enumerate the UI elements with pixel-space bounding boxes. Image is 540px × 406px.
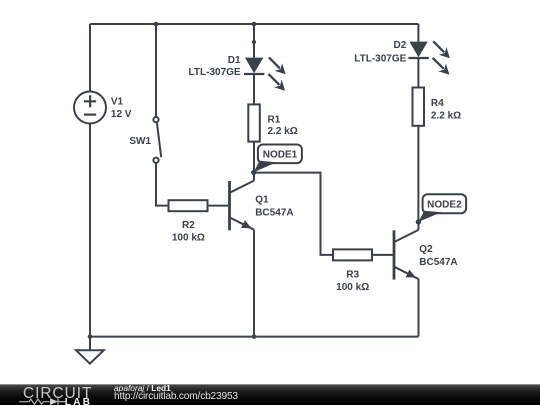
node junction top SW1 xyxy=(154,22,159,27)
CircuitLab logo xyxy=(0,385,110,406)
wire R1 to node xyxy=(253,142,255,181)
node A junction (NODE1) xyxy=(251,170,256,175)
svg-text:100 kΩ: 100 kΩ xyxy=(172,232,205,243)
node junction top D1 xyxy=(252,22,257,27)
svg-text:2.2 kΩ: 2.2 kΩ xyxy=(431,111,461,122)
wire NODE1 to R3 xyxy=(254,173,333,255)
svg-text:BC547A: BC547A xyxy=(419,257,457,268)
wire bottom rail xyxy=(90,336,418,338)
LED D1 xyxy=(244,58,264,74)
node junction bottom-left xyxy=(88,334,93,339)
svg-text:100 kΩ: 100 kΩ xyxy=(336,282,369,293)
svg-text:2.2 kΩ: 2.2 kΩ xyxy=(268,126,298,137)
ground xyxy=(76,337,104,364)
svg-text:LTL-307GE: LTL-307GE xyxy=(189,67,241,78)
svg-text:SW1: SW1 xyxy=(129,136,151,147)
wire SW1 bottom xyxy=(156,163,169,206)
LED D2 xyxy=(408,42,428,58)
NODE1 flag xyxy=(254,145,302,173)
svg-text:V1: V1 xyxy=(111,97,124,108)
wire V1 top xyxy=(89,24,91,92)
wire D1 cathode to R1 xyxy=(253,74,255,104)
footer bar xyxy=(0,384,540,405)
svg-text:R1: R1 xyxy=(268,114,281,125)
svg-text:Q2: Q2 xyxy=(419,244,433,255)
svg-text:R4: R4 xyxy=(431,98,444,109)
wire Q2 emitter down xyxy=(418,279,420,337)
wire SW1 top xyxy=(155,24,157,117)
wire NODE2 to R4 xyxy=(417,126,419,222)
svg-text:R2: R2 xyxy=(182,220,195,231)
svg-text:D1: D1 xyxy=(228,55,241,66)
wire R3 to Q2 base xyxy=(372,254,394,256)
wire D2 cathode to R4 xyxy=(417,58,419,88)
D1 light arrows xyxy=(268,57,285,90)
wire top rail xyxy=(90,23,418,25)
D2 light arrows xyxy=(433,41,450,74)
transistor Q1 xyxy=(230,173,255,231)
resistor R3 xyxy=(333,249,372,260)
svg-text:D2: D2 xyxy=(394,40,407,51)
svg-text:Q1: Q1 xyxy=(255,195,269,206)
wire top rail corner to D2 xyxy=(417,24,419,42)
svg-text:NODE1: NODE1 xyxy=(263,149,298,160)
svg-text:BC547A: BC547A xyxy=(255,207,293,218)
svg-text:NODE2: NODE2 xyxy=(427,200,462,211)
resistor R4 xyxy=(413,88,425,126)
svg-text:R3: R3 xyxy=(346,269,359,280)
voltage source V1 xyxy=(74,92,106,124)
switch SW1 xyxy=(153,117,161,163)
resistor R2 xyxy=(169,200,208,211)
transistor Q2 xyxy=(394,222,419,280)
footer url xyxy=(114,392,238,403)
NODE2 flag xyxy=(419,194,467,222)
node junction bottom Q1 xyxy=(252,334,257,339)
node B junction (NODE2) xyxy=(416,219,421,224)
wire D1 anode xyxy=(253,24,255,58)
resistor R1 xyxy=(248,104,259,141)
wire Q1 emitter down xyxy=(253,230,255,337)
wire V1 bottom xyxy=(89,124,91,337)
svg-text:LTL-307GE: LTL-307GE xyxy=(354,53,406,64)
footer author / title xyxy=(114,384,171,394)
svg-text:12 V: 12 V xyxy=(111,109,132,120)
wire R2 to Q1 base xyxy=(208,205,230,207)
node dot D1 anode xyxy=(252,40,256,44)
